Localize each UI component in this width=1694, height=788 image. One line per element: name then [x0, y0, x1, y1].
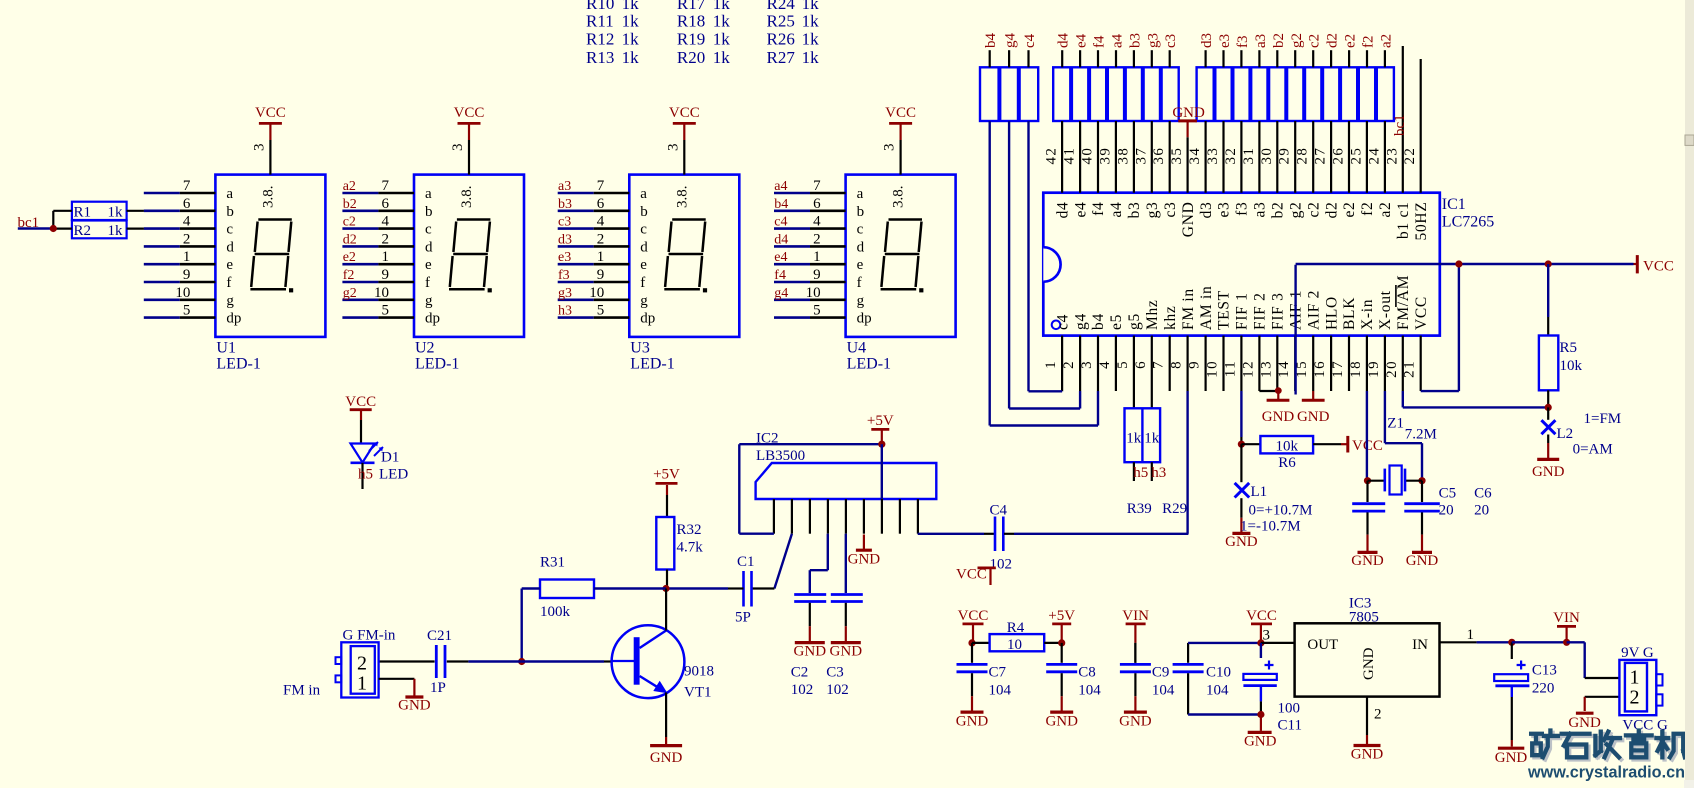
svg-text:6: 6 [1133, 360, 1149, 369]
svg-text:R1: R1 [74, 205, 92, 221]
svg-text:2: 2 [382, 231, 390, 247]
svg-text:f2: f2 [1361, 36, 1377, 49]
svg-text:AM in: AM in [1198, 286, 1215, 330]
svg-text:32: 32 [1223, 147, 1239, 165]
svg-text:a: a [226, 186, 233, 202]
svg-text:39: 39 [1097, 147, 1113, 165]
svg-text:C11: C11 [1278, 718, 1302, 734]
svg-text:1k: 1k [622, 12, 640, 31]
svg-text:b: b [226, 204, 234, 220]
svg-text:5: 5 [183, 303, 191, 319]
svg-text:C2: C2 [791, 665, 809, 681]
svg-text:16: 16 [1312, 360, 1328, 378]
svg-text:d2: d2 [1325, 33, 1341, 48]
svg-text:GND: GND [1532, 464, 1565, 480]
svg-text:3: 3 [1263, 628, 1271, 644]
svg-text:d3: d3 [1199, 33, 1215, 48]
svg-text:GND: GND [1119, 714, 1152, 730]
svg-text:2: 2 [1630, 687, 1640, 709]
svg-text:220: 220 [1532, 681, 1555, 697]
svg-text:f2: f2 [1359, 202, 1376, 216]
svg-text:a3: a3 [1253, 34, 1269, 48]
svg-text:7: 7 [382, 178, 390, 194]
svg-text:GND: GND [794, 644, 827, 660]
svg-text:d3: d3 [1198, 202, 1215, 219]
svg-text:d: d [226, 239, 234, 255]
svg-text:VCC: VCC [345, 394, 376, 410]
svg-text:40: 40 [1080, 147, 1096, 165]
svg-text:b4: b4 [983, 33, 999, 49]
svg-text:1=-10.7M: 1=-10.7M [1240, 519, 1301, 535]
svg-text:6: 6 [382, 196, 390, 212]
svg-text:c2: c2 [1305, 202, 1322, 218]
svg-text:C10: C10 [1206, 665, 1231, 681]
svg-text:d4: d4 [774, 232, 788, 247]
svg-text:GND: GND [650, 750, 683, 766]
svg-text:+5V: +5V [1048, 608, 1075, 624]
svg-text:f: f [640, 275, 645, 291]
svg-text:1: 1 [1043, 360, 1059, 369]
svg-text:1k: 1k [802, 12, 820, 31]
svg-text:10: 10 [1007, 637, 1022, 653]
svg-text:104: 104 [1078, 683, 1101, 699]
svg-text:7: 7 [183, 178, 191, 194]
svg-text:c4: c4 [774, 215, 787, 230]
svg-text:b4: b4 [1090, 313, 1107, 330]
svg-text:C7: C7 [989, 665, 1007, 681]
svg-text:4: 4 [813, 214, 821, 230]
svg-text:GND: GND [1225, 534, 1258, 550]
svg-text:R31: R31 [540, 555, 565, 571]
svg-text:c2: c2 [343, 215, 356, 230]
svg-text:a: a [640, 186, 647, 202]
svg-text:U2: U2 [415, 340, 435, 357]
svg-text:L1: L1 [1251, 484, 1268, 500]
svg-text:a2: a2 [1377, 202, 1394, 218]
svg-text:104: 104 [1152, 683, 1175, 699]
svg-text:g: g [640, 293, 648, 309]
svg-text:42: 42 [1044, 147, 1060, 165]
svg-text:e3: e3 [558, 250, 571, 265]
svg-text:g: g [425, 293, 433, 309]
svg-text:VCC: VCC [255, 105, 286, 121]
svg-text:VT1: VT1 [684, 685, 712, 701]
svg-text:1k: 1k [713, 12, 731, 31]
svg-text:g2: g2 [1287, 202, 1304, 219]
svg-text:1: 1 [1630, 667, 1640, 689]
svg-text:b2: b2 [343, 197, 357, 212]
svg-text:d2: d2 [343, 232, 357, 247]
svg-text:1k: 1k [713, 30, 731, 49]
svg-text:e: e [857, 257, 864, 273]
svg-text:5: 5 [1115, 360, 1131, 369]
svg-text:R25: R25 [767, 12, 795, 31]
svg-text:e: e [226, 257, 233, 273]
svg-text:b4: b4 [774, 197, 788, 212]
svg-text:102: 102 [826, 682, 849, 698]
svg-text:20: 20 [1474, 503, 1489, 519]
svg-text:38: 38 [1115, 147, 1131, 165]
svg-text:f: f [425, 275, 430, 291]
svg-text:bc1: bc1 [1392, 114, 1408, 136]
svg-text:g3: g3 [1144, 202, 1161, 219]
svg-text:d4: d4 [1054, 202, 1071, 219]
svg-text:50HZ: 50HZ [1413, 202, 1430, 241]
svg-text:2: 2 [183, 231, 191, 247]
svg-text:29: 29 [1277, 147, 1293, 165]
svg-text:3: 3 [450, 144, 466, 152]
svg-text:g3: g3 [558, 286, 572, 301]
svg-text:b1 c1: b1 c1 [1395, 202, 1412, 240]
svg-text:a4: a4 [1110, 33, 1126, 48]
svg-text:4.7k: 4.7k [677, 540, 704, 556]
svg-text:22: 22 [1402, 147, 1418, 165]
svg-text:GND: GND [1568, 715, 1601, 731]
svg-text:R12: R12 [586, 30, 614, 49]
svg-text:C8: C8 [1078, 665, 1096, 681]
svg-text:g4: g4 [1003, 33, 1019, 49]
svg-text:2: 2 [357, 653, 367, 675]
svg-text:18: 18 [1348, 360, 1364, 378]
svg-text:b2: b2 [1271, 33, 1287, 48]
svg-text:30: 30 [1259, 147, 1275, 165]
svg-text:R13: R13 [586, 48, 614, 67]
svg-text:d2: d2 [1323, 202, 1340, 219]
svg-text:1k: 1k [713, 48, 731, 67]
svg-text:4: 4 [597, 214, 605, 230]
svg-text:g4: g4 [1072, 313, 1089, 330]
svg-text:GND: GND [848, 552, 881, 568]
svg-text:LED-1: LED-1 [847, 356, 891, 373]
svg-text:R27: R27 [767, 48, 796, 67]
svg-text:1k: 1k [802, 48, 820, 67]
svg-text:10: 10 [589, 285, 604, 301]
svg-text:9: 9 [1187, 360, 1203, 369]
svg-text:h5: h5 [1133, 465, 1148, 481]
svg-text:GND: GND [1351, 553, 1384, 569]
svg-text:HLO: HLO [1323, 296, 1340, 330]
svg-text:37: 37 [1133, 147, 1149, 165]
svg-text:U3: U3 [630, 340, 650, 357]
svg-text:12: 12 [1240, 360, 1256, 378]
svg-text:31: 31 [1241, 147, 1257, 165]
svg-text:c3: c3 [1162, 202, 1179, 218]
svg-text:GND: GND [1172, 105, 1205, 121]
svg-text:LED: LED [379, 467, 408, 483]
svg-text:c: c [226, 222, 233, 238]
svg-text:19: 19 [1366, 360, 1382, 378]
svg-text:dp: dp [226, 311, 241, 327]
svg-text:VIN: VIN [1553, 610, 1580, 626]
svg-text:g: g [226, 293, 234, 309]
svg-text:c3: c3 [1163, 34, 1179, 48]
svg-text:R5: R5 [1560, 340, 1578, 356]
svg-text:3: 3 [665, 144, 681, 152]
svg-text:dp: dp [640, 311, 655, 327]
svg-text:h5: h5 [358, 467, 373, 483]
svg-text:9: 9 [382, 267, 390, 283]
svg-text:34: 34 [1187, 147, 1203, 165]
svg-text:10k: 10k [1560, 358, 1583, 374]
svg-text:9: 9 [813, 267, 821, 283]
svg-text:dp: dp [425, 311, 440, 327]
svg-text:102: 102 [791, 682, 814, 698]
svg-text:g4: g4 [774, 286, 788, 301]
svg-text:f2: f2 [343, 268, 355, 283]
svg-text:14: 14 [1276, 360, 1292, 378]
svg-text:IC1: IC1 [1442, 196, 1466, 213]
svg-text:9V G: 9V G [1621, 645, 1654, 661]
svg-text:LC7265: LC7265 [1442, 214, 1494, 231]
svg-text:LED-1: LED-1 [415, 356, 459, 373]
svg-text:17: 17 [1330, 360, 1346, 378]
svg-text:FM/AM: FM/AM [1395, 275, 1412, 330]
svg-text:3.8.: 3.8. [260, 186, 276, 209]
svg-text:D1: D1 [381, 450, 399, 466]
svg-text:1: 1 [597, 249, 605, 265]
svg-text:OUT: OUT [1307, 637, 1338, 653]
svg-text:9018: 9018 [684, 664, 714, 680]
svg-text:1: 1 [382, 249, 390, 265]
svg-text:10k: 10k [1275, 439, 1298, 455]
svg-text:10: 10 [175, 285, 190, 301]
svg-text:VCC: VCC [1246, 608, 1277, 624]
svg-text:C1: C1 [737, 554, 755, 570]
svg-text:104: 104 [989, 683, 1012, 699]
svg-text:11: 11 [1222, 360, 1238, 377]
svg-text:U1: U1 [216, 340, 236, 357]
svg-text:e2: e2 [1341, 202, 1358, 218]
svg-text:R11: R11 [586, 12, 614, 31]
svg-text:1k: 1k [1144, 431, 1160, 447]
svg-text:2: 2 [597, 231, 605, 247]
svg-text:1: 1 [183, 249, 191, 265]
svg-text:7: 7 [597, 178, 605, 194]
svg-text:GND: GND [1244, 734, 1277, 750]
svg-text:c: c [425, 222, 432, 238]
svg-text:b3: b3 [1126, 202, 1143, 219]
svg-text:2: 2 [813, 231, 821, 247]
svg-text:BLK: BLK [1341, 297, 1358, 330]
svg-text:d: d [857, 239, 865, 255]
svg-text:d: d [425, 239, 433, 255]
svg-text:3.8.: 3.8. [891, 186, 907, 209]
svg-text:R26: R26 [767, 30, 795, 49]
svg-text:C21: C21 [427, 628, 452, 644]
svg-text:1k: 1k [108, 223, 124, 239]
svg-text:GND: GND [398, 698, 431, 714]
svg-text:GND: GND [1262, 409, 1295, 425]
svg-text:3: 3 [882, 144, 898, 152]
svg-text:a2: a2 [343, 179, 356, 194]
svg-text:g: g [857, 293, 865, 309]
svg-text:25: 25 [1348, 147, 1364, 165]
svg-text:5: 5 [597, 303, 605, 319]
svg-text:1k: 1k [1126, 431, 1142, 447]
svg-text:6: 6 [183, 196, 191, 212]
svg-text:e: e [640, 257, 647, 273]
svg-text:C6: C6 [1474, 486, 1492, 502]
svg-text:104: 104 [1206, 683, 1229, 699]
svg-text:C5: C5 [1439, 486, 1457, 502]
svg-text:20: 20 [1439, 503, 1454, 519]
svg-text:g2: g2 [343, 286, 357, 301]
svg-text:a: a [425, 186, 432, 202]
svg-text:5P: 5P [735, 610, 751, 626]
svg-text:GND: GND [1495, 750, 1528, 766]
svg-text:102: 102 [990, 557, 1013, 573]
svg-text:9: 9 [183, 267, 191, 283]
svg-text:100k: 100k [540, 604, 571, 620]
svg-text:f4: f4 [774, 268, 786, 283]
svg-text:g3: g3 [1145, 33, 1161, 48]
svg-text:g2: g2 [1289, 33, 1305, 48]
svg-text:e2: e2 [343, 250, 356, 265]
svg-text:X-out: X-out [1377, 290, 1394, 330]
svg-text:27: 27 [1313, 147, 1329, 165]
svg-text:VIN: VIN [1122, 608, 1149, 624]
svg-text:VCC: VCC [669, 105, 700, 121]
svg-text:4: 4 [382, 214, 390, 230]
svg-text:f3: f3 [1234, 202, 1251, 216]
svg-text:c4: c4 [1054, 314, 1071, 330]
svg-text:TEST: TEST [1216, 290, 1233, 330]
svg-text:R4: R4 [1007, 620, 1025, 636]
svg-text:b: b [857, 204, 865, 220]
svg-text:GND: GND [1361, 647, 1377, 680]
svg-text:LED-1: LED-1 [216, 356, 260, 373]
svg-text:VCC: VCC [454, 105, 485, 121]
svg-text:f: f [226, 275, 231, 291]
svg-text:21: 21 [1402, 360, 1418, 378]
svg-text:20: 20 [1384, 360, 1400, 378]
svg-text:7.2M: 7.2M [1405, 427, 1437, 443]
svg-text:6: 6 [597, 196, 605, 212]
svg-text:LED-1: LED-1 [630, 356, 674, 373]
svg-text:GND: GND [1297, 409, 1330, 425]
svg-text:f3: f3 [1235, 36, 1251, 49]
svg-text:3.8.: 3.8. [459, 186, 475, 209]
svg-text:GND: GND [1351, 747, 1384, 763]
svg-text:10: 10 [374, 285, 389, 301]
svg-text:FM in: FM in [1180, 288, 1197, 330]
svg-text:VCC: VCC [885, 105, 916, 121]
svg-text:FIF 1: FIF 1 [1234, 292, 1251, 330]
svg-text:1=FM: 1=FM [1584, 411, 1622, 427]
svg-text:C3: C3 [826, 665, 844, 681]
svg-text:C9: C9 [1152, 665, 1170, 681]
svg-text:d: d [640, 239, 648, 255]
svg-text:R18: R18 [677, 12, 705, 31]
svg-text:7805: 7805 [1349, 610, 1379, 626]
svg-text:24: 24 [1366, 147, 1382, 165]
svg-text:c: c [857, 222, 864, 238]
svg-text:e4: e4 [774, 250, 787, 265]
svg-text:b2: b2 [1270, 202, 1287, 219]
svg-text:c: c [640, 222, 647, 238]
svg-text:5: 5 [813, 303, 821, 319]
svg-text:FIF 3: FIF 3 [1270, 292, 1287, 330]
svg-text:FM in: FM in [283, 683, 321, 699]
svg-text:e3: e3 [1216, 202, 1233, 218]
svg-text:X-in: X-in [1359, 299, 1376, 330]
svg-text:5: 5 [382, 303, 390, 319]
svg-text:R39: R39 [1127, 501, 1152, 517]
svg-text:GND: GND [1180, 202, 1197, 238]
svg-text:c4: c4 [1022, 33, 1038, 48]
svg-text:4: 4 [1097, 360, 1113, 369]
svg-text:b: b [640, 204, 648, 220]
svg-text:f4: f4 [1092, 35, 1108, 48]
svg-text:10: 10 [1205, 360, 1221, 378]
svg-text:4: 4 [183, 214, 191, 230]
svg-text:3: 3 [251, 144, 267, 152]
svg-text:41: 41 [1062, 147, 1078, 165]
svg-text:AIF 2: AIF 2 [1305, 290, 1322, 330]
svg-text:3.8.: 3.8. [674, 186, 690, 209]
svg-text:1k: 1k [108, 205, 124, 221]
svg-text:f4: f4 [1090, 202, 1107, 216]
svg-text:f3: f3 [558, 268, 570, 283]
svg-text:1k: 1k [802, 30, 820, 49]
svg-text:b: b [425, 204, 433, 220]
svg-text:e4: e4 [1072, 202, 1089, 218]
svg-text:e5: e5 [1108, 314, 1125, 330]
svg-text:13: 13 [1258, 360, 1274, 378]
svg-text:dp: dp [857, 311, 872, 327]
svg-text:c3: c3 [558, 215, 571, 230]
svg-text:GND: GND [956, 714, 989, 730]
svg-text:0=+10.7M: 0=+10.7M [1249, 503, 1313, 519]
svg-text:L2: L2 [1557, 426, 1574, 442]
svg-text:33: 33 [1205, 147, 1221, 165]
svg-text:U4: U4 [847, 340, 867, 357]
svg-text:c2: c2 [1307, 34, 1323, 48]
svg-text:1: 1 [1467, 627, 1475, 643]
svg-text:26: 26 [1331, 147, 1347, 165]
svg-text:1k: 1k [622, 48, 640, 67]
svg-text:f: f [857, 275, 862, 291]
svg-text:1P: 1P [430, 680, 446, 696]
svg-text:100: 100 [1278, 701, 1301, 717]
svg-text:khz: khz [1162, 306, 1179, 330]
svg-text:a4: a4 [1108, 202, 1125, 218]
svg-text:VCC: VCC [956, 567, 987, 583]
svg-text:+5V: +5V [653, 467, 680, 483]
svg-text:h3: h3 [1151, 465, 1166, 481]
svg-text:a: a [857, 186, 864, 202]
svg-text:FIF 2: FIF 2 [1252, 292, 1269, 330]
svg-text:e2: e2 [1343, 34, 1359, 48]
svg-text:1: 1 [813, 249, 821, 265]
svg-text:e3: e3 [1217, 34, 1233, 48]
svg-text:R32: R32 [677, 522, 702, 538]
svg-text:IN: IN [1412, 637, 1428, 653]
svg-text:35: 35 [1169, 147, 1185, 165]
svg-text:VCC: VCC [1643, 259, 1674, 275]
svg-text:G FM-in: G FM-in [343, 628, 396, 644]
svg-text:28: 28 [1295, 147, 1311, 165]
svg-text:a3: a3 [1252, 202, 1269, 218]
svg-text:e4: e4 [1074, 33, 1090, 48]
svg-text:d4: d4 [1056, 33, 1072, 49]
svg-text:10: 10 [806, 285, 821, 301]
svg-text:Mhz: Mhz [1144, 299, 1161, 330]
svg-text:0=AM: 0=AM [1573, 442, 1613, 458]
svg-text:6: 6 [813, 196, 821, 212]
svg-text:C4: C4 [990, 503, 1008, 519]
svg-text:R6: R6 [1278, 455, 1296, 471]
